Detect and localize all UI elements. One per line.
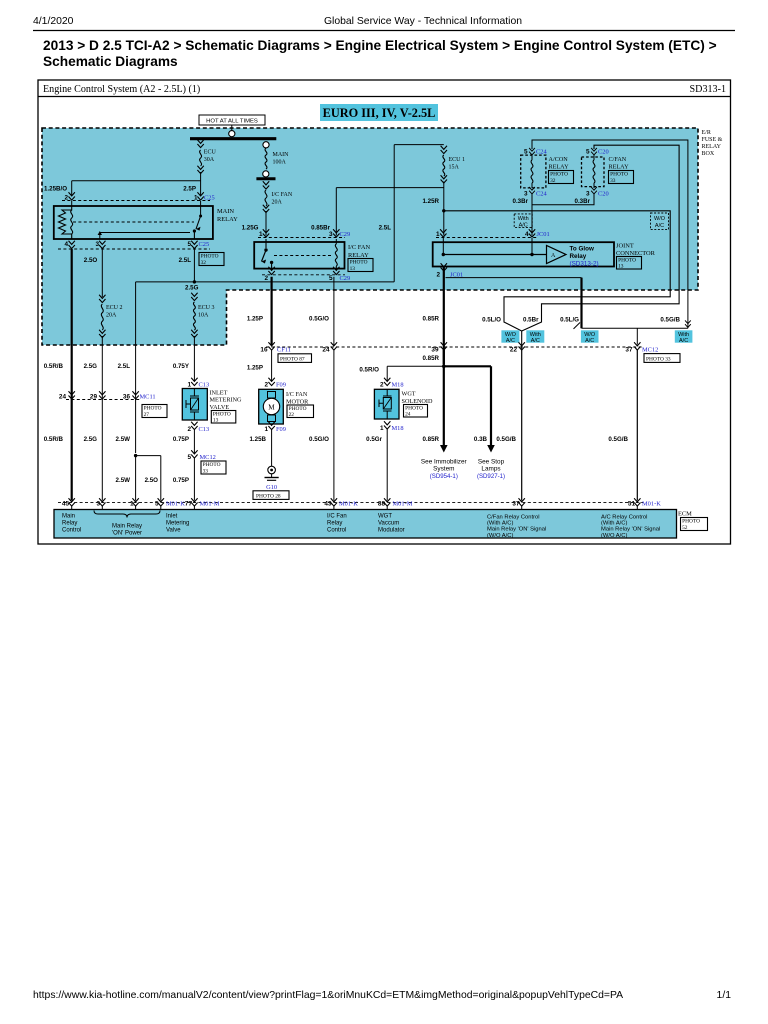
svg-text:13: 13 bbox=[618, 264, 624, 270]
svg-text:A/C: A/C bbox=[506, 338, 515, 344]
svg-text:0.5L/G: 0.5L/G bbox=[560, 317, 579, 324]
svg-text:I/C Fan: I/C Fan bbox=[327, 514, 347, 520]
svg-text:PHOTO: PHOTO bbox=[350, 260, 368, 266]
svg-text:1.25P: 1.25P bbox=[247, 316, 263, 323]
svg-text:3: 3 bbox=[96, 501, 100, 508]
svg-text:0.5G/O: 0.5G/O bbox=[309, 436, 329, 443]
svg-text:0.75P: 0.75P bbox=[173, 436, 189, 443]
svg-text:5: 5 bbox=[329, 275, 333, 282]
svg-text:3: 3 bbox=[329, 231, 333, 238]
svg-text:1.25G: 1.25G bbox=[242, 225, 259, 232]
svg-text:PHOTO: PHOTO bbox=[203, 462, 221, 468]
svg-text:PHOTO 87: PHOTO 87 bbox=[280, 357, 305, 363]
svg-text:2.5G: 2.5G bbox=[84, 363, 98, 370]
svg-text:A/C: A/C bbox=[679, 338, 688, 344]
svg-text:13: 13 bbox=[350, 266, 356, 272]
svg-text:A/C Relay Control: A/C Relay Control bbox=[601, 514, 647, 520]
svg-text:METERING: METERING bbox=[210, 397, 242, 404]
svg-text:G10: G10 bbox=[266, 484, 277, 491]
svg-text:16: 16 bbox=[260, 347, 268, 354]
svg-text:5: 5 bbox=[155, 501, 159, 508]
svg-text:2.5O: 2.5O bbox=[145, 477, 159, 484]
svg-text:SOLENOID: SOLENOID bbox=[402, 398, 433, 405]
svg-text:0.3B: 0.3B bbox=[474, 436, 488, 443]
svg-text:WGT: WGT bbox=[402, 391, 416, 398]
svg-text:With: With bbox=[518, 216, 529, 222]
svg-text:See Immobilizer: See Immobilizer bbox=[421, 459, 468, 466]
svg-text:HOT AT ALL TIMES: HOT AT ALL TIMES bbox=[206, 118, 258, 124]
svg-text:F09: F09 bbox=[276, 382, 286, 389]
svg-text:4/1/2020: 4/1/2020 bbox=[33, 16, 74, 27]
svg-text:37: 37 bbox=[625, 347, 633, 354]
svg-text:2.5W: 2.5W bbox=[116, 436, 131, 443]
svg-text:Control: Control bbox=[62, 528, 81, 534]
svg-text:C29: C29 bbox=[340, 231, 351, 238]
svg-text:3: 3 bbox=[586, 191, 590, 198]
svg-text:Main: Main bbox=[62, 514, 75, 520]
svg-text:https://www.kia-hotline.com/ma: https://www.kia-hotline.com/manualV2/con… bbox=[33, 990, 623, 1001]
svg-text:C/Fan Relay Control: C/Fan Relay Control bbox=[487, 514, 540, 520]
svg-text:VALVE: VALVE bbox=[210, 404, 230, 411]
svg-text:1/1: 1/1 bbox=[717, 990, 732, 1001]
svg-text:Global Service Way - Technical: Global Service Way - Technical Informati… bbox=[324, 16, 522, 27]
svg-text:2: 2 bbox=[380, 382, 384, 389]
svg-text:5: 5 bbox=[187, 454, 191, 461]
svg-text:PHOTO: PHOTO bbox=[682, 519, 700, 525]
svg-text:PHOTO 33: PHOTO 33 bbox=[646, 357, 671, 363]
svg-text:PHOTO: PHOTO bbox=[213, 411, 231, 417]
svg-text:0.5R/B: 0.5R/B bbox=[44, 436, 64, 443]
svg-text:0.5L/O: 0.5L/O bbox=[482, 317, 501, 324]
svg-text:22: 22 bbox=[289, 412, 295, 418]
svg-text:RELAY: RELAY bbox=[702, 144, 722, 150]
svg-text:33: 33 bbox=[203, 469, 209, 475]
svg-text:System: System bbox=[433, 466, 454, 473]
svg-text:MOTOR: MOTOR bbox=[286, 398, 309, 405]
svg-text:51: 51 bbox=[628, 501, 636, 508]
svg-text:C20: C20 bbox=[598, 149, 609, 156]
svg-text:A/C: A/C bbox=[585, 338, 594, 344]
svg-text:0.85R: 0.85R bbox=[422, 436, 439, 443]
svg-text:(SD927-1): (SD927-1) bbox=[477, 473, 505, 480]
svg-text:(With A/C): (With A/C) bbox=[487, 521, 513, 527]
svg-text:20A: 20A bbox=[272, 200, 283, 206]
svg-text:WGT: WGT bbox=[378, 514, 392, 520]
svg-text:15A: 15A bbox=[449, 165, 460, 171]
svg-text:Inlet: Inlet bbox=[166, 514, 178, 520]
svg-text:RELAY: RELAY bbox=[549, 163, 570, 170]
svg-text:52: 52 bbox=[682, 525, 688, 531]
svg-text:MC12: MC12 bbox=[642, 347, 658, 354]
svg-text:C13: C13 bbox=[199, 382, 210, 389]
svg-text:Vaccum: Vaccum bbox=[378, 521, 399, 527]
svg-text:ECU: ECU bbox=[204, 150, 217, 156]
svg-text:I/C FAN: I/C FAN bbox=[272, 192, 293, 198]
svg-text:5: 5 bbox=[524, 149, 528, 156]
svg-text:M18: M18 bbox=[392, 425, 404, 432]
svg-text:22: 22 bbox=[510, 347, 518, 354]
svg-text:1: 1 bbox=[264, 426, 268, 433]
svg-text:32: 32 bbox=[550, 178, 556, 184]
svg-text:RELAY: RELAY bbox=[217, 216, 238, 223]
svg-text:C24: C24 bbox=[536, 149, 547, 156]
svg-text:I/C FAN: I/C FAN bbox=[286, 391, 308, 398]
svg-text:MAIN: MAIN bbox=[273, 152, 290, 158]
svg-text:2.5L: 2.5L bbox=[379, 225, 392, 232]
svg-text:(SD313-2): (SD313-2) bbox=[570, 261, 599, 268]
svg-text:See Stop: See Stop bbox=[478, 459, 505, 466]
svg-text:1.25P: 1.25P bbox=[247, 365, 263, 372]
svg-text:1: 1 bbox=[259, 231, 263, 238]
svg-text:W/O: W/O bbox=[654, 216, 666, 222]
svg-text:A/C: A/C bbox=[655, 223, 664, 229]
svg-text:1: 1 bbox=[130, 501, 134, 508]
svg-text:RELAY: RELAY bbox=[609, 163, 630, 170]
svg-text:36: 36 bbox=[123, 393, 131, 400]
svg-text:2.5L: 2.5L bbox=[179, 257, 192, 264]
svg-text:Schematic Diagrams: Schematic Diagrams bbox=[43, 54, 178, 69]
svg-text:SD313-1: SD313-1 bbox=[690, 84, 726, 95]
svg-text:0.3Br: 0.3Br bbox=[513, 198, 529, 205]
svg-text:Main Relay 'ON' Signal: Main Relay 'ON' Signal bbox=[601, 527, 660, 533]
svg-text:M18: M18 bbox=[392, 382, 404, 389]
svg-text:Relay: Relay bbox=[327, 521, 342, 527]
svg-text:ECU 3: ECU 3 bbox=[198, 305, 215, 311]
svg-text:4: 4 bbox=[525, 231, 529, 238]
svg-text:88: 88 bbox=[378, 501, 386, 508]
svg-text:To Glow: To Glow bbox=[570, 246, 594, 253]
svg-text:INLET: INLET bbox=[210, 390, 228, 397]
svg-text:JOINT: JOINT bbox=[616, 243, 634, 250]
svg-text:BOX: BOX bbox=[702, 151, 715, 157]
svg-text:Main Relay 'ON' Signal: Main Relay 'ON' Signal bbox=[487, 527, 546, 533]
svg-text:1.25B: 1.25B bbox=[249, 436, 266, 443]
svg-text:A/CON: A/CON bbox=[549, 156, 569, 163]
svg-text:2013 > D 2.5 TCI-A2 > Schemati: 2013 > D 2.5 TCI-A2 > Schematic Diagrams… bbox=[43, 38, 717, 53]
svg-text:45: 45 bbox=[62, 501, 70, 508]
svg-text:C29: C29 bbox=[340, 275, 351, 282]
svg-text:0.5R/O: 0.5R/O bbox=[359, 367, 379, 374]
svg-text:33: 33 bbox=[610, 178, 616, 184]
svg-text:M01-K: M01-K bbox=[642, 501, 661, 508]
svg-text:2.5G: 2.5G bbox=[185, 285, 199, 292]
svg-text:M: M bbox=[268, 403, 275, 411]
svg-text:PHOTO: PHOTO bbox=[610, 172, 628, 178]
svg-text:(W/O A/C): (W/O A/C) bbox=[487, 533, 513, 539]
svg-text:0.85R: 0.85R bbox=[422, 316, 439, 323]
svg-text:CF11: CF11 bbox=[277, 347, 291, 354]
svg-text:E/R: E/R bbox=[702, 130, 711, 136]
svg-text:PHOTO: PHOTO bbox=[201, 254, 219, 260]
svg-text:4: 4 bbox=[64, 241, 68, 248]
svg-text:30A: 30A bbox=[204, 157, 215, 163]
svg-text:A/C: A/C bbox=[519, 223, 528, 229]
svg-text:0.5Gr: 0.5Gr bbox=[366, 436, 382, 443]
svg-text:ECM: ECM bbox=[678, 511, 692, 518]
svg-text:1: 1 bbox=[380, 425, 384, 432]
svg-text:2.5L: 2.5L bbox=[118, 363, 131, 370]
svg-text:PHOTO: PHOTO bbox=[289, 406, 307, 412]
svg-text:Control: Control bbox=[327, 528, 346, 534]
svg-text:2: 2 bbox=[436, 272, 440, 279]
svg-text:PHOTO: PHOTO bbox=[550, 172, 568, 178]
svg-text:5: 5 bbox=[586, 149, 590, 156]
svg-text:PHOTO: PHOTO bbox=[405, 405, 423, 411]
svg-text:27: 27 bbox=[144, 412, 150, 418]
svg-text:M01-K: M01-K bbox=[166, 501, 185, 508]
svg-text:F09: F09 bbox=[276, 426, 286, 433]
svg-text:5: 5 bbox=[187, 241, 191, 248]
svg-text:MAIN: MAIN bbox=[217, 208, 234, 215]
svg-text:I/C FAN: I/C FAN bbox=[348, 244, 370, 251]
svg-text:PHOTO: PHOTO bbox=[618, 257, 636, 263]
svg-text:2: 2 bbox=[264, 275, 268, 282]
svg-text:0.5G/B: 0.5G/B bbox=[660, 317, 680, 324]
svg-text:77: 77 bbox=[185, 501, 193, 508]
svg-text:Valve: Valve bbox=[166, 528, 181, 534]
svg-text:100A: 100A bbox=[273, 160, 287, 166]
svg-text:1: 1 bbox=[187, 382, 191, 389]
svg-text:0.5R/B: 0.5R/B bbox=[44, 363, 64, 370]
svg-text:FUSE &: FUSE & bbox=[702, 137, 723, 143]
svg-text:CONNECTOR: CONNECTOR bbox=[616, 250, 656, 257]
svg-text:Main Relay: Main Relay bbox=[112, 524, 142, 530]
svg-text:32: 32 bbox=[201, 260, 207, 266]
svg-text:2: 2 bbox=[187, 426, 191, 433]
svg-text:A/C: A/C bbox=[531, 338, 540, 344]
svg-text:PHOTO 28: PHOTO 28 bbox=[256, 494, 281, 500]
svg-text:JC01: JC01 bbox=[537, 231, 550, 238]
svg-text:EURO III, IV, V-2.5L: EURO III, IV, V-2.5L bbox=[323, 106, 436, 120]
svg-text:C/FAN: C/FAN bbox=[609, 156, 627, 163]
svg-text:ECU 1: ECU 1 bbox=[449, 157, 466, 163]
svg-text:0.75P: 0.75P bbox=[173, 477, 189, 484]
svg-text:(SD954-1): (SD954-1) bbox=[430, 473, 458, 480]
svg-text:Engine Control System (A2 - 2.: Engine Control System (A2 - 2.5L) (1) bbox=[43, 84, 200, 95]
svg-text:Relay: Relay bbox=[62, 521, 77, 527]
svg-text:0.85Br: 0.85Br bbox=[311, 225, 331, 232]
svg-text:(W/O A/C): (W/O A/C) bbox=[601, 533, 627, 539]
svg-text:PHOTO: PHOTO bbox=[144, 406, 162, 412]
svg-text:MC11: MC11 bbox=[140, 393, 156, 400]
svg-text:37: 37 bbox=[512, 501, 520, 508]
svg-text:2.5W: 2.5W bbox=[116, 477, 131, 484]
svg-text:M01-K: M01-K bbox=[339, 501, 358, 508]
svg-text:C25: C25 bbox=[199, 241, 210, 248]
svg-text:20A: 20A bbox=[106, 313, 117, 319]
svg-text:C13: C13 bbox=[199, 426, 210, 433]
svg-text:C24: C24 bbox=[536, 191, 547, 198]
svg-text:1.25B/O: 1.25B/O bbox=[44, 186, 67, 193]
svg-text:3: 3 bbox=[95, 241, 99, 248]
svg-text:24: 24 bbox=[59, 393, 67, 400]
svg-text:0.5G/O: 0.5G/O bbox=[309, 316, 329, 323]
svg-text:ECU 2: ECU 2 bbox=[106, 305, 123, 311]
svg-text:MC12: MC12 bbox=[200, 454, 216, 461]
svg-text:2: 2 bbox=[264, 382, 268, 389]
svg-text:10A: 10A bbox=[198, 313, 209, 319]
svg-text:C20: C20 bbox=[598, 191, 609, 198]
svg-text:Lamps: Lamps bbox=[481, 466, 500, 473]
svg-text:'ON' Power: 'ON' Power bbox=[112, 531, 142, 537]
svg-text:2.5O: 2.5O bbox=[84, 257, 98, 264]
svg-text:3: 3 bbox=[524, 191, 528, 198]
svg-text:A: A bbox=[551, 253, 556, 259]
svg-text:Relay: Relay bbox=[570, 253, 587, 260]
svg-text:(With A/C): (With A/C) bbox=[601, 521, 627, 527]
svg-text:0.5G/B: 0.5G/B bbox=[608, 436, 628, 443]
svg-text:1: 1 bbox=[436, 231, 440, 238]
svg-text:0.5G/B: 0.5G/B bbox=[496, 436, 516, 443]
svg-text:Modulator: Modulator bbox=[378, 528, 405, 534]
svg-text:1.25R: 1.25R bbox=[422, 198, 439, 205]
svg-text:39: 39 bbox=[431, 347, 439, 354]
svg-text:13: 13 bbox=[213, 418, 219, 424]
svg-text:2.5P: 2.5P bbox=[183, 186, 196, 193]
svg-text:24: 24 bbox=[322, 347, 330, 354]
svg-text:0.3Br: 0.3Br bbox=[575, 198, 591, 205]
svg-text:2.5G: 2.5G bbox=[84, 436, 98, 443]
svg-text:Metering: Metering bbox=[166, 521, 189, 527]
svg-text:24: 24 bbox=[405, 412, 411, 418]
svg-text:0.75Y: 0.75Y bbox=[173, 363, 190, 370]
svg-text:29: 29 bbox=[90, 393, 98, 400]
svg-text:0.85R: 0.85R bbox=[422, 355, 439, 362]
svg-text:M01-M: M01-M bbox=[393, 501, 413, 508]
svg-text:43: 43 bbox=[324, 501, 332, 508]
svg-text:0.5Br: 0.5Br bbox=[523, 317, 539, 324]
svg-text:M01-M: M01-M bbox=[200, 501, 220, 508]
